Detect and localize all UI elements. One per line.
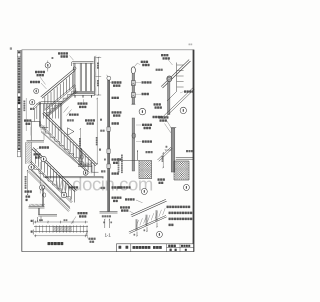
flight 1 rail top joint circle — [73, 67, 76, 70]
hatched wall edge right of panel — [94, 57, 96, 96]
ref circle near floor — [61, 192, 67, 198]
detail 4 label right 2-line — [186, 150, 193, 152]
newel post bottom-left — [43, 188, 45, 207]
plan bottom dimension line — [34, 235, 88, 237]
label flight2 rail mid — [39, 146, 49, 148]
flight 1 balusters — [44, 97, 46, 111]
vertical dimension 1050 beside panel — [97, 57, 99, 95]
left dim upper flight — [25, 98, 27, 131]
flight 2 far balusters — [45, 116, 47, 129]
mid landing rail and posts — [41, 101, 62, 103]
up-direction triangle arrow — [68, 128, 75, 135]
ref circle a — [34, 89, 39, 94]
section 1-1 below-floor anchors — [102, 215, 111, 217]
mid landing bottom edge — [27, 140, 45, 142]
plan section mark 1 left top — [32, 220, 34, 225]
plan title text — [48, 242, 64, 245]
flight 2 near handrail — [33, 148, 76, 191]
plan right section mark — [86, 230, 88, 235]
label flight2 handrail — [69, 114, 79, 116]
label below panel 2-line — [78, 102, 88, 104]
detail 1 post — [132, 74, 135, 104]
page mark top-right — [189, 44, 193, 46]
plan leader label right 2-line — [78, 212, 88, 214]
detail 4 label bottom-left 2-line — [158, 178, 165, 180]
label rail left — [30, 81, 40, 83]
detail 3 anchor arrows — [136, 232, 138, 237]
ref circle lower — [40, 185, 45, 190]
detail 4 stringer diagonal — [158, 147, 172, 160]
title bar cell tu-ming — [119, 246, 122, 249]
section 1-1 labels right — [112, 81, 122, 83]
label near circle 2-line — [34, 153, 41, 155]
flight 2 far handrail — [44, 112, 97, 165]
mid landing front face — [30, 122, 32, 141]
detail 3 bottom tick labels — [134, 234, 136, 236]
detail 3 handrail diagonal — [131, 199, 166, 215]
leader arrows mid — [64, 107, 69, 113]
section 1-1 post sleeves — [107, 127, 110, 131]
plan label right lower 2-line — [89, 238, 96, 240]
detail 4 number circle — [183, 184, 189, 190]
detail 5 number circle — [141, 188, 147, 194]
height dim flight2 far — [79, 129, 81, 159]
detail 2 ball joint — [167, 76, 172, 82]
detail 5 labels right — [142, 124, 152, 126]
flight 2 far steps — [41, 129, 89, 170]
detail 5 label bottom — [118, 186, 131, 188]
ref circle flight2 b — [29, 165, 34, 170]
title bar box — [117, 244, 194, 252]
detail 1 labels right — [142, 81, 152, 83]
detail 2 label right — [184, 90, 194, 92]
detail 4 vertical dim — [162, 153, 164, 169]
notes text block — [167, 206, 191, 209]
detail 4 post — [171, 128, 175, 172]
label handrail top — [58, 52, 68, 54]
flight 2 near soffit hatched — [29, 171, 70, 211]
ref circle b — [30, 100, 35, 105]
flight 1 stringer — [46, 86, 76, 111]
detail 1 number circle — [139, 108, 146, 115]
detail 3 posts — [136, 219, 138, 230]
label flight2 post 2-line — [85, 119, 95, 121]
section 1-1 tall post — [107, 76, 111, 80]
bottom floor line — [45, 175, 104, 177]
plan section mark 1 left bottom — [32, 230, 34, 235]
section 1-1 floor — [100, 211, 118, 213]
detail 2 post — [168, 82, 170, 115]
detail 5 post — [132, 118, 135, 171]
detail 2 label bottom-left 2-line — [154, 103, 161, 105]
label bottom-left 2-line — [26, 196, 31, 198]
detail 3 label left 2-line — [120, 206, 130, 208]
label joint 2-line left — [35, 71, 45, 73]
detail 2 handrail diagonals — [163, 61, 191, 88]
detail 4 rail to wall — [176, 157, 193, 159]
flight 2 far stringer — [41, 125, 90, 173]
detail 5 vertical text left — [121, 155, 123, 174]
left dim lower flight — [27, 170, 29, 195]
detail 2 lower stringer diagonals — [164, 89, 195, 119]
detail 5 concrete block crosshatched — [139, 161, 152, 179]
flight 1 steps — [46, 88, 76, 113]
section 1-1 left small labels — [100, 130, 104, 132]
detail 4 labels left 2-line — [159, 116, 169, 118]
detail 2 label top 2-line — [161, 54, 168, 56]
section marker circle top-left — [47, 61, 49, 72]
detail 4 step block hatched — [174, 161, 189, 180]
detail 1 joint sleeves — [131, 81, 135, 86]
left binding strip with vertical text — [17, 50, 20, 156]
plan view top dimension line — [34, 221, 88, 223]
flight 1 handrail (down to left) — [42, 70, 75, 98]
detail 3 label top — [125, 198, 135, 200]
flight 2 near balusters — [35, 151, 37, 164]
mid landing stepped top edge — [31, 121, 40, 123]
vertical leader to lower rail — [39, 162, 41, 194]
detail 2 number circle — [180, 107, 186, 113]
detail 2 label D left — [156, 69, 163, 71]
landing corner rail down-left — [34, 103, 40, 109]
drawing frame border — [22, 49, 194, 51]
label near floor right — [69, 186, 79, 188]
title block page — [170, 249, 172, 251]
detail 3 base sloped lines — [129, 215, 166, 232]
page mark top-left — [10, 47, 12, 49]
plan balusters ticks — [35, 225, 37, 232]
anchor arrows bottom-left — [37, 217, 39, 222]
detail 4 dim 60 — [165, 149, 171, 151]
top landing railing panel — [73, 60, 94, 62]
flight 2 near steps — [30, 166, 71, 201]
detail 5 ground line — [122, 160, 140, 162]
detail 5 joint sleeve — [132, 133, 136, 138]
flight 2 near stringer — [31, 161, 73, 203]
plan band — [34, 225, 88, 227]
ref circle flight2 a — [41, 156, 46, 161]
detail 2 comb rail — [176, 63, 178, 92]
upper floor edge right with hatch — [78, 164, 92, 166]
detail 5 anchor arrow — [137, 151, 139, 161]
detail 1 label top 2-line — [141, 61, 148, 63]
detail 3 hatch texture on stringer — [136, 220, 139, 227]
label landing rail left 2-line — [24, 119, 31, 121]
detail 1 handrail ellipse — [131, 67, 135, 74]
post at bottom floor — [80, 148, 82, 165]
height dim right — [96, 98, 98, 165]
title bar drawing title — [133, 246, 151, 249]
ref circle floor — [83, 170, 88, 175]
svg-text:1-1: 1-1 — [105, 233, 112, 238]
section 1-1 mid labels — [99, 149, 101, 151]
title block atlas no — [168, 245, 176, 248]
bottom-left floor with hatch — [29, 206, 45, 208]
landing slab cut hatched bar — [25, 142, 27, 164]
detail 3 number circle — [156, 231, 162, 237]
label lower-left rail — [25, 190, 32, 192]
